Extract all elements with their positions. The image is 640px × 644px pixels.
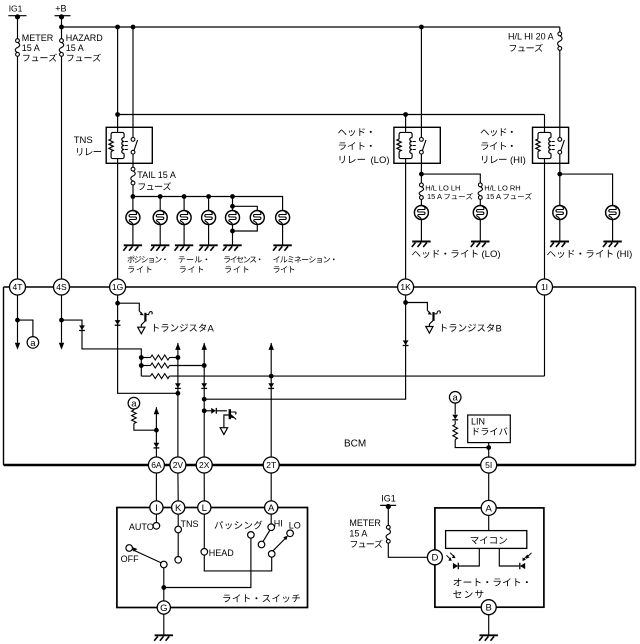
label headlight LO xyxy=(412,250,478,258)
svg-text:15 A: 15 A xyxy=(349,528,367,538)
svg-text:LIN: LIN xyxy=(471,417,485,427)
wire bus to tail light 2 xyxy=(208,197,210,211)
arrow 4S line end xyxy=(59,343,64,350)
wire 2T internal xyxy=(270,343,272,457)
ground tail light 1 xyxy=(175,245,194,251)
svg-text:1K: 1K xyxy=(400,282,411,292)
svg-text:TAIL 15 A: TAIL 15 A xyxy=(137,170,176,180)
svg-text:4S: 4S xyxy=(56,282,67,292)
terminal D sensor xyxy=(427,550,442,565)
terminal 1K xyxy=(398,279,414,295)
fuse METER 15A sensor xyxy=(349,518,390,543)
wire pivot to passing contact xyxy=(164,538,251,587)
wire bus to tail light 1 xyxy=(183,197,185,211)
wire TNS switch feed xyxy=(132,27,134,138)
junction 1K branch xyxy=(403,300,408,305)
wire TNS contact link xyxy=(177,533,179,557)
svg-text:1I: 1I xyxy=(541,282,548,292)
lamp headlight HI left xyxy=(553,206,567,220)
wire relay HI coil to 1I xyxy=(544,159,546,280)
label passing xyxy=(215,521,263,530)
terminal 5I xyxy=(481,457,497,473)
svg-text:LO: LO xyxy=(289,520,301,530)
svg-text:B: B xyxy=(496,323,502,334)
wire 1I internal xyxy=(544,295,546,376)
resistor row2 xyxy=(141,363,204,368)
wire +B down to HAZARD fuse xyxy=(61,17,63,39)
diode on a3 line xyxy=(452,415,458,420)
label transistor B xyxy=(442,324,494,332)
lamp illumination light xyxy=(276,211,290,225)
svg-text:HI: HI xyxy=(274,519,283,529)
terminal 6A xyxy=(148,457,164,473)
svg-text:METER: METER xyxy=(349,518,381,528)
light switch box xyxy=(117,508,308,608)
wire METER fuse to 4T xyxy=(17,56,19,279)
wire relay LO switch feed xyxy=(420,27,422,138)
wire G to ground xyxy=(163,614,165,635)
wire 6A to switch I xyxy=(155,473,157,501)
relay TNS xyxy=(106,127,152,163)
junction pivot node xyxy=(161,585,166,590)
node +B bus junction xyxy=(59,25,64,30)
wire TAIL fuse to lamp bus xyxy=(132,185,134,197)
junction row2 right xyxy=(202,363,207,368)
junction bus to TNS switch xyxy=(131,25,136,30)
photodiode right xyxy=(520,553,532,569)
diode on 1K line xyxy=(403,340,409,345)
ground headlight LO right xyxy=(471,242,490,248)
svg-text:(LO): (LO) xyxy=(371,155,390,166)
junction lamp bus node 1 xyxy=(131,194,136,199)
wire bus to position light 1 xyxy=(132,197,134,211)
wire HAZARD fuse to 4S xyxy=(61,56,63,279)
ground license light 1 xyxy=(223,245,242,251)
wire relay LO coil feed xyxy=(405,115,407,133)
wire IG1 to METER fuse 2 xyxy=(387,507,389,526)
junction bus to headlight relay LO switch xyxy=(419,25,424,30)
connector a2 xyxy=(128,397,140,409)
junction 4T branch xyxy=(15,318,20,323)
arrow 2V up xyxy=(175,343,180,350)
fuse H/L LO RH 15A xyxy=(478,183,521,199)
resistor row1 xyxy=(141,355,178,360)
node IG1 terminal xyxy=(8,4,26,20)
terminal 2X xyxy=(196,457,212,473)
transistor at 2X xyxy=(224,409,236,428)
svg-text:1G: 1G xyxy=(112,282,123,292)
contact dimmer pivot xyxy=(268,551,275,558)
svg-text:+B: +B xyxy=(55,4,66,14)
label light switch xyxy=(223,594,300,602)
wire 6A internal xyxy=(155,407,157,457)
lamp headlight LO right xyxy=(473,206,487,220)
microcomputer box xyxy=(446,531,527,549)
terminal A switch xyxy=(265,501,278,514)
terminal 4S xyxy=(54,279,70,295)
wire 4S branch to resistor ladder xyxy=(62,320,142,376)
wire K stub xyxy=(177,514,179,526)
svg-text:(HI): (HI) xyxy=(510,155,526,166)
contact LO xyxy=(287,520,301,536)
svg-text:15 A: 15 A xyxy=(486,192,501,201)
resistor below a2 xyxy=(132,409,157,431)
wire license parallel branch bottom xyxy=(233,224,258,231)
wire illumination light to ground xyxy=(282,224,284,245)
svg-text:METER: METER xyxy=(22,33,54,43)
contact main pivot xyxy=(161,561,168,568)
diode on 2T line xyxy=(268,383,274,388)
junction lamp bus node 4 xyxy=(206,194,211,199)
junction mid bus at TNS coil xyxy=(115,112,120,117)
terminal 4T xyxy=(10,279,26,295)
wire microcomputer to right photodiode xyxy=(499,548,519,566)
wire I stub xyxy=(155,514,157,522)
wire position light 2 to ground xyxy=(159,224,161,245)
svg-text:4T: 4T xyxy=(13,282,23,292)
resistor row3 to 1I xyxy=(141,374,544,379)
transistor B xyxy=(406,303,441,334)
diode on 2V line xyxy=(175,383,181,388)
ground headlight LO left xyxy=(412,242,431,248)
junction license lamp parallel bottom xyxy=(230,229,235,234)
svg-text:K: K xyxy=(175,503,182,514)
terminal 1G xyxy=(110,279,126,295)
wire B to ground xyxy=(488,615,490,635)
lamp tail light 1 xyxy=(177,211,191,225)
ground illumination light xyxy=(273,245,292,251)
wire LH fuse to headlight LO left xyxy=(420,199,422,205)
terminal 2T xyxy=(263,457,279,473)
svg-text:HAZARD: HAZARD xyxy=(66,33,104,43)
label headlight HI xyxy=(547,250,613,258)
wire mid bus to relay coils xyxy=(118,114,545,116)
ground light switch xyxy=(154,635,173,641)
wire 5I to sensor A xyxy=(488,473,490,500)
svg-text:a: a xyxy=(131,399,137,410)
wire HEAD to dimmer pivot xyxy=(204,555,271,571)
wire relay LO coil to 1K xyxy=(405,159,407,280)
arrow 2X up xyxy=(202,343,207,350)
wire 1G internal xyxy=(118,295,178,393)
lamp tail light 2 xyxy=(202,211,216,225)
node IG1 sensor terminal xyxy=(380,494,396,510)
connector a3 xyxy=(449,392,461,404)
diode on 4S branch xyxy=(79,325,85,330)
junction 6A at a2 branch xyxy=(154,428,159,433)
svg-text:a: a xyxy=(453,393,459,404)
svg-text:6A: 6A xyxy=(151,460,162,470)
svg-text:(LO): (LO) xyxy=(482,249,501,260)
junction ladder row2 left xyxy=(139,363,144,368)
svg-text:15 A: 15 A xyxy=(427,192,442,201)
wire 4T to connector a1 xyxy=(18,320,33,337)
lamp position light 2 xyxy=(153,211,167,225)
wire headlight LO right to ground xyxy=(479,219,481,241)
label tail light xyxy=(179,256,208,262)
contact HEAD xyxy=(201,548,234,558)
wire TNS coil feed xyxy=(117,27,119,132)
junction license lamp parallel top xyxy=(230,204,235,209)
label microcomputer xyxy=(471,536,507,544)
wire headlight LO left to ground xyxy=(420,219,422,241)
svg-text:L: L xyxy=(202,503,207,514)
svg-text:H/L HI 20 A: H/L HI 20 A xyxy=(508,32,554,42)
svg-text:IG1: IG1 xyxy=(381,494,396,504)
ground position light 1 xyxy=(123,245,142,251)
lamp headlight LO left xyxy=(414,206,428,220)
junction 1G branch xyxy=(115,301,120,306)
svg-text:IG1: IG1 xyxy=(9,4,23,14)
relay headlight LO xyxy=(394,127,440,163)
junction 2X at 1K wire xyxy=(202,397,207,402)
wire 2X to switch L xyxy=(203,473,205,501)
fuse H/L HI 20A xyxy=(508,27,562,50)
junction row1 right xyxy=(176,355,181,360)
junction row3 at 2T xyxy=(269,374,274,379)
svg-text:B: B xyxy=(486,603,492,614)
junction HI switch output xyxy=(557,172,562,177)
wire H/L HI fuse to relay HI switch xyxy=(559,50,561,137)
fuse HAZARD 15A xyxy=(59,33,103,56)
fuse TAIL 15A xyxy=(131,167,176,185)
contact OFF xyxy=(121,545,139,564)
wire relay LO switch output xyxy=(420,154,422,183)
contact AUTO xyxy=(129,522,160,532)
resistor below a3 xyxy=(453,421,489,448)
junction mid bus to relay LO coil xyxy=(403,112,408,117)
wire 4T internal xyxy=(17,295,19,343)
diode on 6A line xyxy=(154,443,160,448)
wire LIN to 5I xyxy=(488,443,490,457)
svg-text:a: a xyxy=(30,338,36,349)
label illumination light xyxy=(273,256,334,263)
wire 2X internal xyxy=(203,343,205,457)
svg-text:TNS: TNS xyxy=(181,519,199,529)
wire 1K internal xyxy=(204,295,405,399)
svg-text:2X: 2X xyxy=(199,460,210,470)
fuse H/L LO LH 15A xyxy=(419,183,460,199)
wire microcomputer to left photodiode xyxy=(459,548,479,566)
label BCM xyxy=(344,439,366,450)
wire bus to position light 2 xyxy=(159,197,161,211)
diode on 1G line xyxy=(115,320,121,325)
ground headlight HI right xyxy=(603,242,622,248)
svg-text:15 A: 15 A xyxy=(22,43,40,53)
lever OFF with arrow xyxy=(132,547,161,563)
wire A to microcomputer xyxy=(488,515,490,530)
auto light sensor box xyxy=(435,508,544,607)
terminal L xyxy=(198,501,211,514)
wire A stub xyxy=(270,514,272,524)
wire 2V internal xyxy=(177,343,179,457)
junction LO switch output xyxy=(419,172,424,177)
svg-text:TNS: TNS xyxy=(74,135,93,146)
svg-text:AUTO: AUTO xyxy=(129,522,154,532)
wire IG1 down to METER fuse xyxy=(17,17,19,39)
wire headlight HI right to ground xyxy=(612,219,614,241)
wire TNS coil to 1G xyxy=(117,159,119,280)
terminal B sensor xyxy=(481,600,496,615)
lamp license light 1 xyxy=(226,211,240,225)
wire 2V to switch K xyxy=(177,473,179,501)
svg-text:2V: 2V xyxy=(173,460,184,470)
terminal 1I xyxy=(537,279,553,295)
open arrow below 2X transistor xyxy=(220,428,227,435)
junction ladder row1 left xyxy=(139,355,144,360)
ground position light 2 xyxy=(151,245,170,251)
terminal G xyxy=(157,601,170,614)
junction 2X transistor branch xyxy=(202,408,207,413)
svg-text:15 A: 15 A xyxy=(66,43,84,53)
svg-text:D: D xyxy=(431,553,438,564)
contact TNS lower xyxy=(175,557,182,564)
node +B terminal xyxy=(55,4,71,20)
wire license parallel branch top xyxy=(233,206,258,210)
wire LO output to RH fuse xyxy=(421,174,480,183)
label position light xyxy=(128,256,166,263)
photodiode left xyxy=(447,553,459,570)
lamp headlight HI right xyxy=(606,206,620,220)
junction lamp bus node 2 xyxy=(158,194,163,199)
LIN driver box xyxy=(468,415,511,443)
lamp position light 1 xyxy=(126,211,140,225)
terminal A sensor xyxy=(481,500,496,515)
svg-text:I: I xyxy=(155,503,158,514)
contact HI xyxy=(268,519,283,531)
ground sensor xyxy=(479,635,498,641)
wire relay HI coil feed xyxy=(544,115,546,133)
contact passing xyxy=(248,532,255,539)
BCM box xyxy=(4,287,636,465)
junction lamp bus node 3 xyxy=(182,194,187,199)
svg-text:5I: 5I xyxy=(485,460,492,470)
junction 5I node xyxy=(486,445,491,450)
wire a3 down xyxy=(454,403,456,415)
wire position light 1 to ground xyxy=(132,224,134,245)
wire license light 1 to ground xyxy=(232,224,234,245)
wire 2T to switch A xyxy=(270,473,272,501)
relay headlight HI xyxy=(533,127,569,163)
transistor A xyxy=(118,303,153,334)
junction lamp bus node 5 xyxy=(230,194,235,199)
fuse METER 15A xyxy=(15,33,54,56)
wire RH fuse to headlight LO right xyxy=(479,199,481,205)
diode to 2X transistor xyxy=(204,408,227,414)
contact TNS upper xyxy=(175,519,199,533)
ground headlight HI left xyxy=(550,242,569,248)
wire METER fuse to D xyxy=(388,543,427,557)
terminal I xyxy=(150,501,163,514)
svg-text:A: A xyxy=(486,503,493,514)
terminal K xyxy=(172,501,185,514)
wire tail light 2 to ground xyxy=(208,224,210,245)
wire headlight HI left to ground xyxy=(559,219,561,241)
wire TNS switch to TAIL fuse xyxy=(132,154,134,167)
arrow 6A up xyxy=(154,407,159,414)
connector a1 xyxy=(27,337,39,349)
svg-text:G: G xyxy=(160,603,167,614)
wire relay HI switch output xyxy=(559,154,561,206)
terminal 2V xyxy=(170,457,186,473)
arrow 2T up xyxy=(269,343,274,350)
label transistor A xyxy=(154,324,206,332)
svg-text:HEAD: HEAD xyxy=(209,548,235,558)
lever dimmer to LO with arrow xyxy=(273,536,288,551)
wire tail light 1 to ground xyxy=(183,224,185,245)
contact HI lever end xyxy=(258,541,265,548)
label relay LO xyxy=(338,128,372,136)
arrow 4T line end xyxy=(15,343,20,350)
wire HI output to right lamp xyxy=(560,174,613,206)
lever HI xyxy=(263,530,270,542)
diode on 2X line xyxy=(201,383,207,388)
svg-text:2T: 2T xyxy=(266,460,276,470)
ground tail light 2 xyxy=(199,245,218,251)
junction 2V at 1G wire xyxy=(176,391,181,396)
lamp bus xyxy=(133,197,283,211)
junction bus to TNS coil xyxy=(115,25,120,30)
svg-text:(HI): (HI) xyxy=(617,249,633,260)
svg-text:OFF: OFF xyxy=(121,554,139,564)
label relay HI xyxy=(481,128,513,136)
svg-text:BCM: BCM xyxy=(344,439,366,450)
label TNS relay xyxy=(74,135,93,146)
wire bus to license light 1 xyxy=(232,197,234,211)
label auto light sensor xyxy=(454,578,528,586)
wire pivot to G xyxy=(163,568,165,601)
wire L stub xyxy=(203,514,205,548)
svg-text:A: A xyxy=(208,323,215,334)
wire 4S internal xyxy=(61,295,63,343)
junction 4S branch xyxy=(59,318,64,323)
lamp license light 2 xyxy=(250,211,264,225)
wire +B top bus xyxy=(62,26,560,28)
label license light xyxy=(224,256,260,263)
svg-text:A: A xyxy=(268,503,275,514)
